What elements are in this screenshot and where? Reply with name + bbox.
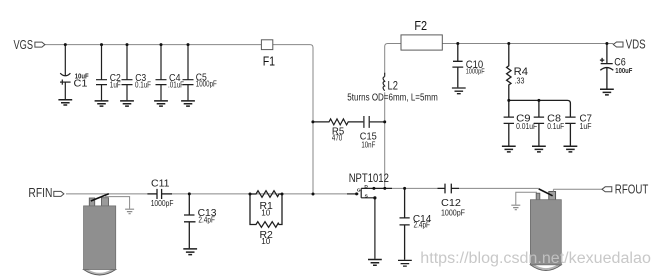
svg-text:2.4pF: 2.4pF	[198, 215, 215, 224]
svg-text:470: 470	[332, 134, 343, 143]
svg-text:C11: C11	[151, 177, 170, 189]
svg-text:0.01uF: 0.01uF	[516, 122, 537, 131]
svg-text:1000pF: 1000pF	[151, 199, 174, 208]
svg-text:0.1uF: 0.1uF	[135, 80, 151, 89]
svg-text:.01uF: .01uF	[168, 80, 184, 89]
svg-text:https://blog.csdn.net/kexuedal: https://blog.csdn.net/kexuedalao	[420, 250, 651, 267]
svg-text:10: 10	[261, 237, 271, 246]
svg-text:F1: F1	[263, 55, 275, 69]
svg-text:1000pF: 1000pF	[441, 209, 465, 218]
svg-text:F2: F2	[414, 19, 427, 33]
svg-text:0.1uF: 0.1uF	[547, 122, 564, 131]
svg-text:1000pF: 1000pF	[466, 67, 485, 76]
svg-text:C1: C1	[74, 78, 88, 90]
svg-text:10nF: 10nF	[361, 141, 375, 150]
svg-text:2.4pF: 2.4pF	[414, 221, 431, 230]
svg-text:VDS: VDS	[626, 38, 646, 52]
svg-text:VGS: VGS	[14, 38, 34, 52]
svg-text:RFIN: RFIN	[28, 186, 52, 200]
svg-text:C12: C12	[441, 197, 461, 209]
svg-text:1uF: 1uF	[580, 122, 592, 131]
svg-text:10: 10	[261, 209, 271, 218]
svg-text:100uF: 100uF	[615, 66, 632, 75]
svg-text:.33: .33	[515, 76, 525, 85]
svg-text:1000pF: 1000pF	[196, 79, 217, 88]
svg-text:D: D	[364, 184, 368, 190]
svg-text:NPT1012: NPT1012	[349, 173, 389, 185]
svg-text:RFOUT: RFOUT	[615, 183, 649, 197]
svg-text:5turns OD=6mm, L=5mm: 5turns OD=6mm, L=5mm	[347, 92, 438, 103]
svg-text:1uF: 1uF	[110, 81, 121, 90]
svg-text:L2: L2	[388, 78, 399, 92]
